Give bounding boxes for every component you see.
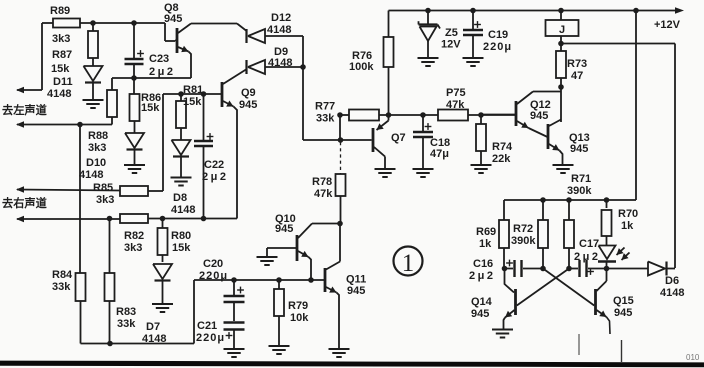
svg-text:15k: 15k: [51, 63, 70, 75]
svg-text:R70: R70: [618, 208, 638, 220]
svg-text:2μ2: 2μ2: [149, 66, 175, 78]
svg-text:3k3: 3k3: [52, 33, 70, 45]
svg-text:4148: 4148: [142, 333, 166, 345]
svg-text:Q9: Q9: [241, 87, 256, 99]
svg-text:47μ: 47μ: [430, 148, 449, 160]
svg-text:D12: D12: [271, 12, 291, 24]
svg-text:945: 945: [570, 143, 588, 155]
svg-text:945: 945: [239, 99, 257, 111]
svg-text:R80: R80: [171, 230, 191, 242]
svg-text:去左声道: 去左声道: [2, 103, 48, 117]
svg-text:2μ2: 2μ2: [469, 270, 495, 282]
svg-text:3k3: 3k3: [88, 142, 106, 154]
svg-text:D10: D10: [86, 157, 106, 169]
svg-text:D11: D11: [53, 76, 73, 88]
svg-text:12V: 12V: [441, 39, 461, 51]
svg-text:去右声道: 去右声道: [2, 196, 48, 210]
svg-text:3k3: 3k3: [124, 242, 142, 254]
svg-text:390k: 390k: [567, 185, 592, 197]
svg-text:010: 010: [686, 353, 700, 362]
svg-text:D8: D8: [173, 192, 187, 204]
svg-text:33k: 33k: [117, 318, 136, 330]
svg-text:R72: R72: [513, 223, 533, 235]
svg-text:R85: R85: [93, 182, 113, 194]
svg-text:4148: 4148: [47, 88, 71, 100]
svg-text:33k: 33k: [316, 113, 335, 125]
svg-text:15k: 15k: [172, 242, 191, 254]
svg-text:100k: 100k: [349, 61, 374, 73]
svg-text:945: 945: [614, 307, 632, 319]
svg-text:220μ: 220μ: [483, 41, 512, 53]
svg-text:D7: D7: [146, 321, 160, 333]
svg-text:C22: C22: [204, 159, 224, 171]
svg-text:47k: 47k: [446, 99, 465, 111]
svg-text:R88: R88: [88, 130, 108, 142]
svg-text:4148: 4148: [267, 24, 291, 36]
svg-text:47: 47: [571, 70, 583, 82]
svg-text:Q14: Q14: [471, 296, 493, 308]
svg-text:4148: 4148: [79, 169, 103, 181]
svg-text:R83: R83: [116, 306, 136, 318]
svg-text:1k: 1k: [479, 238, 492, 250]
svg-text:4148: 4148: [268, 57, 292, 69]
svg-text:10k: 10k: [290, 312, 309, 324]
svg-text:1: 1: [402, 250, 415, 277]
svg-text:C19: C19: [488, 29, 508, 41]
svg-text:R77: R77: [315, 101, 335, 113]
svg-text:33k: 33k: [52, 281, 71, 293]
svg-text:D6: D6: [665, 275, 679, 287]
svg-text:945: 945: [164, 13, 182, 25]
svg-text:R89: R89: [50, 5, 70, 17]
svg-text:R82: R82: [124, 230, 144, 242]
svg-text:+12V: +12V: [654, 19, 681, 31]
svg-text:1k: 1k: [621, 220, 634, 232]
svg-text:15k: 15k: [141, 102, 160, 114]
svg-text:2μ2: 2μ2: [202, 171, 228, 183]
svg-text:C17: C17: [579, 238, 599, 250]
svg-text:R79: R79: [288, 300, 308, 312]
svg-text:C21: C21: [197, 320, 217, 332]
svg-text:R71: R71: [571, 173, 591, 185]
svg-text:P75: P75: [446, 87, 466, 99]
svg-text:R73: R73: [567, 58, 587, 70]
svg-text:Z5: Z5: [445, 27, 458, 39]
svg-text:R74: R74: [492, 141, 513, 153]
svg-text:3k3: 3k3: [96, 194, 114, 206]
svg-text:945: 945: [275, 223, 293, 235]
svg-text:R78: R78: [312, 176, 332, 188]
svg-text:C23: C23: [149, 53, 169, 65]
svg-text:945: 945: [471, 308, 489, 320]
svg-text:22k: 22k: [492, 153, 511, 165]
svg-text:945: 945: [347, 285, 365, 297]
svg-text:C20: C20: [203, 258, 223, 270]
svg-text:220μ: 220μ: [196, 332, 225, 344]
svg-text:J: J: [559, 24, 565, 36]
svg-text:220μ: 220μ: [199, 270, 228, 282]
svg-text:4148: 4148: [660, 287, 684, 299]
svg-text:R69: R69: [476, 226, 496, 238]
svg-text:2μ2: 2μ2: [574, 251, 600, 263]
svg-text:Q15: Q15: [613, 295, 634, 307]
svg-text:Q7: Q7: [391, 132, 406, 144]
svg-text:C16: C16: [473, 258, 493, 270]
svg-text:390k: 390k: [511, 235, 536, 247]
svg-text:R87: R87: [52, 49, 72, 61]
svg-text:R84: R84: [52, 269, 73, 281]
svg-text:4148: 4148: [171, 204, 195, 216]
svg-text:Q11: Q11: [346, 274, 366, 286]
svg-text:945: 945: [530, 110, 548, 122]
svg-text:47k: 47k: [314, 188, 333, 200]
